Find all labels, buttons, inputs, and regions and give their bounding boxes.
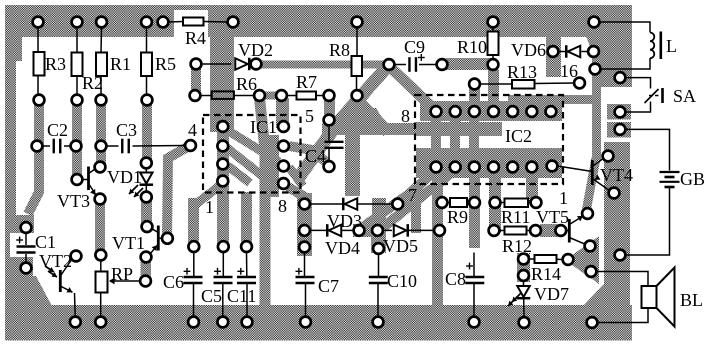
svg-text:VD7: VD7 xyxy=(534,284,569,304)
node pad BL plus xyxy=(586,266,597,277)
wire C9 to R10 trace xyxy=(446,58,494,70)
node top pad A9 xyxy=(589,17,600,28)
wire trace right of IC1 pins xyxy=(266,135,279,197)
wire VT1 emitter to RP trace xyxy=(141,257,152,281)
wire IC2 pin5 to R9 C8 trace xyxy=(469,167,480,248)
node pad VT4 emitter xyxy=(609,188,620,199)
wire IC2 pin stub 13 xyxy=(508,95,518,113)
node pad C2 left xyxy=(32,141,43,152)
node pad R7 left xyxy=(276,90,287,101)
node pad C4 top xyxy=(324,115,335,126)
node pad R2 bottom xyxy=(72,95,83,106)
node pad IC1 pin5 xyxy=(278,121,289,132)
wire C1 leads xyxy=(25,233,27,245)
resistor R6 xyxy=(212,91,234,99)
node bottom pad B9 xyxy=(519,317,530,328)
node pad VD3 anode xyxy=(299,199,310,210)
node pad IC1 pin8 xyxy=(278,178,289,189)
svg-text:R12: R12 xyxy=(502,236,532,256)
wire right vertical strip xyxy=(604,142,630,307)
node pad C6 top xyxy=(188,241,199,252)
wire trace to C1 xyxy=(28,140,39,214)
node pad C5 top xyxy=(218,241,229,252)
diode VD7 LED xyxy=(517,286,530,297)
wire C5 trace xyxy=(217,122,229,248)
transistor VT4 xyxy=(591,160,594,185)
node pad VT3 collector xyxy=(95,162,106,173)
wire R6 leads xyxy=(200,95,212,97)
wire IC2 top pad row band xyxy=(420,101,562,121)
resistor R10 xyxy=(488,32,499,56)
node pad IC2 bottom row 2 xyxy=(450,162,461,173)
wire C9 leads xyxy=(394,64,406,66)
wire L top lead xyxy=(600,22,651,33)
node pad IC2 bottom row 5 xyxy=(507,162,518,173)
node pad R7 right xyxy=(324,90,335,101)
svg-text:8: 8 xyxy=(401,106,410,126)
node pad R12 left xyxy=(489,225,500,236)
svg-text:7: 7 xyxy=(408,185,417,205)
node pad IC1 pin4 xyxy=(217,121,228,132)
node top pad A6 xyxy=(228,17,239,28)
node pad IC2 bottom row 6 xyxy=(526,162,537,173)
svg-text:R14: R14 xyxy=(531,264,561,284)
resistor R13 xyxy=(512,80,535,89)
transistor VT5 xyxy=(568,219,571,243)
svg-text:8: 8 xyxy=(278,196,287,216)
node pad VD1 top xyxy=(141,158,152,169)
node pad IC2 top row 2 xyxy=(450,106,461,117)
wire GB island 3 xyxy=(607,122,631,138)
node bottom pad B2 xyxy=(95,317,106,328)
svg-text:BL: BL xyxy=(680,290,703,310)
svg-text:R8: R8 xyxy=(329,40,350,60)
wire trace R1 to VT3 collector xyxy=(96,100,106,170)
capacitor C1 xyxy=(17,245,36,247)
switch SA xyxy=(645,89,659,103)
node pad R9 right xyxy=(469,197,480,208)
resistor R8 xyxy=(352,56,363,76)
node pad GB plus xyxy=(615,124,626,135)
wire R7 right to C4 top link xyxy=(324,99,335,119)
node pad R13 right pin16 xyxy=(574,78,585,89)
wire VD6 cathode strip xyxy=(546,36,561,77)
wire R4 to R6 wide trace xyxy=(210,37,234,132)
wire R12 leads xyxy=(500,230,505,232)
node pad IC2 bottom row 3 xyxy=(469,162,480,173)
capacitor C4 xyxy=(325,141,344,143)
svg-text:VD5: VD5 xyxy=(383,236,418,256)
node pad SA bottom xyxy=(615,107,626,118)
svg-text:RP: RP xyxy=(111,264,133,284)
wire R14 to VD7 trace xyxy=(517,253,530,282)
node pad C7 top xyxy=(299,242,310,253)
inductor L coil xyxy=(650,33,654,59)
wire C4 to IC2 horizontal trace xyxy=(322,123,418,135)
node top pad A1 xyxy=(33,17,44,28)
node bottom pad B7 xyxy=(373,317,384,328)
wire VD6 leads xyxy=(559,51,566,53)
resistor R5 xyxy=(141,53,152,77)
diode VD6 xyxy=(568,46,581,58)
wire VD4 VD5 junction blob xyxy=(353,224,383,237)
wire column R2 trace xyxy=(72,96,82,184)
node pad R14 right xyxy=(563,254,574,265)
node pad VD5 anode xyxy=(372,225,383,236)
node pad R12 right xyxy=(530,225,541,236)
svg-text:C2: C2 xyxy=(47,120,68,140)
op-amp U1 IC1 dashed outline xyxy=(203,115,301,193)
node pad C9 right xyxy=(437,59,448,70)
node pad IC2 top row 5 xyxy=(507,106,518,117)
svg-text:R3: R3 xyxy=(45,54,66,74)
wire IC2 pin10 stub xyxy=(450,115,460,152)
node pad IC2 top row 1 xyxy=(431,106,442,117)
svg-text:VD6: VD6 xyxy=(511,40,546,60)
node pad IC2 top row 7 xyxy=(546,106,557,117)
wire VD2 leads xyxy=(201,63,231,65)
resistor R9 xyxy=(450,198,467,207)
wire IC1 inner trace a xyxy=(227,130,279,162)
wire C5 leads xyxy=(222,252,224,276)
wire C9 to IC2 pin diagonal trace xyxy=(391,68,433,108)
wire RP leads xyxy=(100,261,102,272)
node pad VT1 base xyxy=(162,233,173,244)
node pad VT3 base xyxy=(72,174,83,185)
node pad VD2 anode xyxy=(191,59,202,70)
wire right strip flare xyxy=(582,284,604,307)
wire R9 leads xyxy=(448,202,451,204)
node pad IC2 bottom row 1 xyxy=(431,162,442,173)
node pad R13 left xyxy=(469,79,480,90)
svg-text:VT1: VT1 xyxy=(112,233,145,253)
svg-text:C7: C7 xyxy=(318,276,339,296)
wire R13 to IC2 trace xyxy=(469,88,480,113)
node bottom pad B4 xyxy=(217,317,228,328)
capacitor C7 xyxy=(296,276,315,278)
node pad IC1 pin3 xyxy=(217,141,228,152)
wire IC1 pin7 fan trace xyxy=(289,167,303,186)
transistor VT3 xyxy=(87,167,90,191)
node top pad A4 xyxy=(141,17,152,28)
wire VT2 emitter to pad xyxy=(74,293,77,317)
wire R2 leads xyxy=(76,27,78,53)
wire VT5 emitter blob xyxy=(565,236,599,284)
svg-text:1: 1 xyxy=(559,188,568,208)
wire BL bottom lead xyxy=(598,306,649,323)
diode VD3 xyxy=(345,198,358,210)
wire SA top lead xyxy=(626,78,651,89)
wire VD2 cathode to C9 horizontal trace xyxy=(258,61,389,69)
wire IC2 inner top trace xyxy=(416,122,502,136)
svg-text:C10: C10 xyxy=(387,271,417,291)
svg-text:5: 5 xyxy=(305,106,314,126)
svg-text:C6: C6 xyxy=(163,272,184,292)
svg-text:IC2: IC2 xyxy=(505,126,532,146)
node bottom pad B10 xyxy=(587,317,598,328)
wire left edge strip xyxy=(5,37,16,216)
node top pad A3 xyxy=(96,17,107,28)
node bottom pad B3 xyxy=(188,317,199,328)
wire VD4 leads xyxy=(310,229,327,231)
wire R7 to IC1 pin5 trace xyxy=(276,98,289,128)
node bottom pad B8 xyxy=(469,317,480,328)
wire IC1 pin8 junction trace xyxy=(288,187,305,197)
wire IC2 pin9 stub xyxy=(431,115,441,152)
diode VD4 xyxy=(329,225,342,237)
capacitor C5 xyxy=(214,276,233,278)
node pad VD4 cathode xyxy=(354,225,365,236)
svg-text:R7: R7 xyxy=(296,72,317,92)
wire IC2 pin4 to R11 R12 trace xyxy=(489,167,501,232)
wire L bottom lead xyxy=(600,58,651,69)
node bottom pad B5 xyxy=(242,317,253,328)
svg-text:IC1: IC1 xyxy=(250,117,277,137)
node pad IC1 pin7 xyxy=(278,161,289,172)
node pad IC1 pin1 xyxy=(217,176,228,187)
wire C3 leads xyxy=(107,145,119,147)
node pad C10 top xyxy=(373,243,384,254)
svg-text:SA: SA xyxy=(673,86,696,106)
wire IC2 pin7 fan a xyxy=(400,170,436,202)
wire C4 leads xyxy=(328,126,330,141)
node pad C11 top xyxy=(241,241,252,252)
wire R5 leads xyxy=(146,27,148,53)
node pad VT5 emitter xyxy=(585,241,596,252)
node pad IC1 pin6 xyxy=(278,141,289,152)
op-amp U2 IC2 dashed outline xyxy=(415,95,563,184)
wire SA bottom lead xyxy=(626,102,651,113)
node bottom pad B6 xyxy=(300,317,311,328)
node pad C4 bottom xyxy=(324,161,335,172)
node pad VD5 cathode xyxy=(434,225,445,236)
wire VD1 leads xyxy=(145,169,147,173)
wire strip to VT5 collector xyxy=(586,158,596,212)
wire VD3 leads xyxy=(310,203,343,205)
node pad VT1 collector xyxy=(142,221,153,232)
wire IC2 pin stub 15 xyxy=(546,95,556,113)
wire VD1 to VT1 collector trace xyxy=(141,196,152,229)
resistor R2 xyxy=(72,53,83,77)
wire R6 to bottom band trace xyxy=(260,98,266,306)
node pad R5 bottom xyxy=(142,95,153,106)
node pad R3 bottom xyxy=(34,95,45,106)
svg-text:16: 16 xyxy=(560,61,578,81)
capacitor C10 xyxy=(369,276,388,278)
svg-text:R5: R5 xyxy=(155,54,176,74)
wire junction wedge fill xyxy=(342,108,392,133)
wire C11 leads xyxy=(246,252,248,276)
battery GB xyxy=(660,171,680,173)
capacitor C6 xyxy=(184,276,203,278)
node pad R6 left xyxy=(190,90,201,101)
wire R1 leads xyxy=(100,27,103,53)
svg-text:R11: R11 xyxy=(501,207,530,227)
resistor R11 xyxy=(505,199,529,208)
node pad SA top xyxy=(615,72,626,83)
wire R8 pad to C4 diagonal xyxy=(357,100,388,132)
wire C4 to VD3 strip xyxy=(345,132,360,196)
svg-text:C3: C3 xyxy=(116,120,137,140)
wire top-right horizontal link xyxy=(508,95,592,104)
resistor R12 xyxy=(505,227,527,235)
wire C2 leads xyxy=(43,145,51,147)
wire VD5 leads xyxy=(383,229,392,231)
svg-text:VT3: VT3 xyxy=(57,191,90,211)
svg-text:VT5: VT5 xyxy=(536,207,569,227)
wire BL top lead xyxy=(597,272,649,289)
node pad IC2 bottom row 4 xyxy=(488,162,499,173)
transistor VT2 photo xyxy=(59,270,62,292)
wire IC2 pin6 to band trace xyxy=(432,172,443,306)
wire R3 leads xyxy=(37,27,39,52)
node pad VT4 collector xyxy=(603,151,614,162)
wire R10 leads xyxy=(492,27,494,32)
wire IC1 inner trace c xyxy=(228,166,250,183)
svg-text:R10: R10 xyxy=(457,37,487,57)
wire IC1 inner trace b xyxy=(227,148,265,178)
node pad VD4 anode xyxy=(299,225,310,236)
wire VD2 anode trace xyxy=(191,66,201,94)
transistor VT1 xyxy=(157,226,160,251)
node pad VT5 collector xyxy=(582,208,593,219)
svg-text:VD3: VD3 xyxy=(327,211,362,231)
node pad R11 left xyxy=(490,197,501,208)
wire IC2 fan c xyxy=(363,186,420,227)
wire C10 leads xyxy=(378,254,380,276)
wire GB top lead xyxy=(626,129,670,170)
wire bottom-left riser xyxy=(5,258,19,306)
wire column R5 trace xyxy=(142,96,152,165)
node pad VT2 collector xyxy=(71,251,82,262)
svg-text:C4: C4 xyxy=(305,146,326,166)
wire pin7 side strip xyxy=(411,185,421,233)
wire R12 to VT5 base trace xyxy=(540,224,558,237)
node pad C1 bottom xyxy=(21,263,32,274)
node pad C3 left xyxy=(96,141,107,152)
node pad RP top xyxy=(95,250,106,261)
node pad VD2 cathode xyxy=(251,59,262,70)
node pad R11 right xyxy=(531,197,542,208)
svg-text:R13: R13 xyxy=(507,62,537,82)
capacitor C9 xyxy=(408,57,410,72)
wire IC2 pin3 to R11 trace xyxy=(526,167,538,203)
svg-text:R2: R2 xyxy=(82,73,103,93)
wire C1 bottom blob xyxy=(5,257,33,279)
node top pad A5 xyxy=(158,17,169,28)
wire R14 leads xyxy=(529,258,535,260)
node pad RP wiper xyxy=(140,276,151,287)
resistor R3 xyxy=(34,52,45,76)
svg-text:VT4: VT4 xyxy=(600,165,633,185)
resistor R14 xyxy=(535,255,557,263)
wire left narrow strip xyxy=(5,233,10,258)
wire SA island 2 xyxy=(607,104,631,120)
diode VD2 xyxy=(235,58,248,70)
capacitor C3 xyxy=(121,139,123,154)
wire R7 leads xyxy=(287,95,297,97)
node top pad A2 xyxy=(72,17,83,28)
svg-text:R9: R9 xyxy=(447,207,468,227)
potentiometer RP xyxy=(96,272,108,293)
wire C9 to IC1 pin8 diagonal trace xyxy=(297,68,386,180)
capacitor C11 xyxy=(237,276,256,278)
node pad IC1 pin2 xyxy=(217,159,228,170)
node pad IC2 top row 3 xyxy=(469,106,480,117)
node pad VT1 emitter xyxy=(141,252,152,263)
node pad VD7 anode xyxy=(518,270,529,281)
wire IC2 pin stub 14 xyxy=(527,95,537,113)
node pad R10 bottom xyxy=(488,59,499,70)
node pad IC2 pin16 col xyxy=(547,161,558,172)
node pad R6 right xyxy=(254,90,265,101)
wire column R3 trace xyxy=(34,96,44,146)
node pad R14 left xyxy=(518,254,529,265)
wire C1 top blob xyxy=(5,215,34,233)
wire GB bottom lead xyxy=(626,188,670,255)
svg-text:C9: C9 xyxy=(404,37,425,57)
svg-text:C5: C5 xyxy=(201,286,222,306)
wire IC2 pin11 stub xyxy=(469,115,479,152)
wire C11 trace xyxy=(241,192,252,248)
node pad VD6 anode xyxy=(548,46,559,57)
node pad C2 right xyxy=(71,141,82,152)
node pad R1 bottom xyxy=(96,95,107,106)
svg-text:VD1: VD1 xyxy=(107,167,142,187)
node pad IC2 top row 4 xyxy=(488,106,499,117)
wire C8 leads xyxy=(473,253,475,277)
wire IC1 pin6 to C4 trace xyxy=(289,146,327,163)
node pad VD6 cathode xyxy=(588,46,599,57)
wire R6 right to R7 left trace xyxy=(261,92,280,100)
resistor R4 xyxy=(183,18,204,26)
svg-text:R4: R4 xyxy=(185,28,206,48)
wire VT3 emitter trace xyxy=(95,199,105,258)
node pad C1 top xyxy=(21,222,32,233)
wire IC2 inner band trace xyxy=(416,148,562,178)
svg-text:4: 4 xyxy=(188,120,197,140)
wire C6 leads xyxy=(193,252,195,276)
resistor R1 xyxy=(96,53,107,77)
wire C7 leads xyxy=(304,253,306,277)
svg-text:R6: R6 xyxy=(236,74,257,94)
resistor R7 xyxy=(297,92,317,100)
wire IC2 fan b xyxy=(381,170,455,229)
node pad 4 xyxy=(185,140,196,151)
node pad VT3 emitter xyxy=(95,194,106,205)
svg-text:VD4: VD4 xyxy=(325,238,360,258)
wire R13 leads xyxy=(480,83,512,85)
svg-text:GB: GB xyxy=(680,169,705,189)
speaker BL xyxy=(642,286,657,308)
svg-text:R1: R1 xyxy=(110,54,131,74)
node pad C9 left xyxy=(384,59,395,70)
svg-text:C11: C11 xyxy=(227,286,256,306)
wire R8 leads xyxy=(356,27,358,56)
wire block down strip xyxy=(592,87,601,160)
wire C7 column trace xyxy=(297,193,312,256)
wire top copper band xyxy=(5,5,632,37)
node top pad A7 xyxy=(352,17,363,28)
diode VD5 xyxy=(394,225,407,237)
wire IC1 pin1 fan trace xyxy=(196,184,222,204)
node pad IC2 top row 6 xyxy=(526,106,537,117)
wire R11 leads xyxy=(501,202,505,204)
capacitor C2 xyxy=(53,139,55,154)
svg-text:C1: C1 xyxy=(35,232,56,252)
wire node4 to VT1 base trace xyxy=(167,146,190,239)
node pad VT5 base xyxy=(555,225,566,236)
